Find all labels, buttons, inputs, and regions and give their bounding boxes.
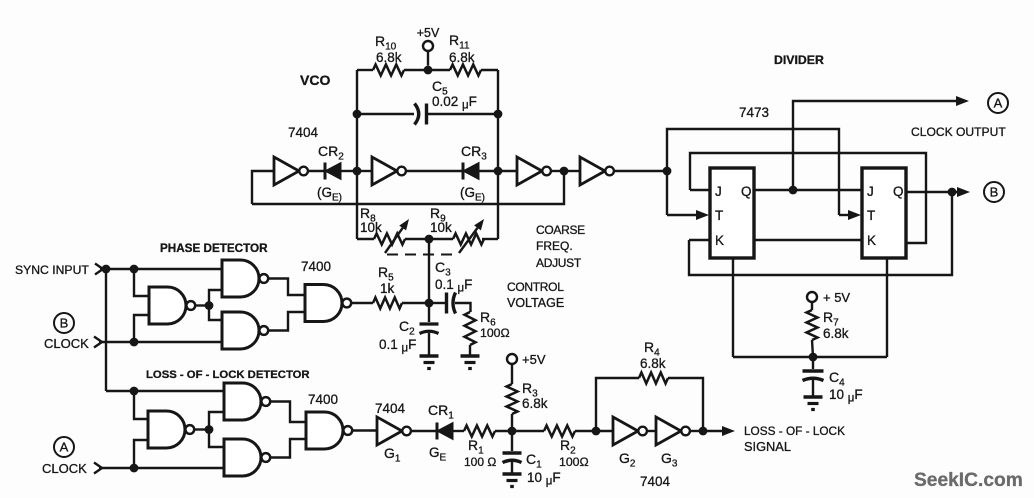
wire U1D output to divider [615,170,668,172]
label 7473 [739,105,769,120]
wire R3 to node [511,414,513,431]
svg-text:6.8k: 6.8k [823,326,849,341]
label COARSE FREQ. ADJUST [536,223,585,270]
resistor R4 6.8k [639,339,668,384]
wire CR3 to node [479,170,498,172]
inverter U1C (7404) [517,157,551,185]
wire wiper node to control node [428,239,430,303]
resistor R10 [373,33,404,76]
svg-text:7404: 7404 [288,125,319,140]
inverter U1B (7404) [372,157,406,185]
output B [984,182,1004,202]
wire C3 to R6 [455,303,471,312]
svg-text:7404: 7404 [375,401,406,416]
wire CR2 to node [341,170,357,172]
svg-text:100Ω: 100Ω [480,326,510,340]
node U3C output [205,425,214,434]
node R1/R3/C1/R2 [508,427,517,436]
wire R2 to node [575,430,596,432]
svg-text:7473: 7473 [739,105,769,120]
svg-text:100 Ω: 100 Ω [464,455,496,469]
svg-text:10k: 10k [430,220,452,235]
resistor R1 100ohm [464,426,496,470]
svg-text:VCO: VCO [300,72,330,88]
label 7400 (loss-of-lock) [308,392,338,407]
ground (C4) [804,397,823,410]
node Q1 branch [789,186,798,195]
svg-text:10 μF: 10 μF [829,387,863,405]
svg-text:LOSS - OF - LOCK DETECTOR: LOSS - OF - LOCK DETECTOR [146,369,310,381]
node SYNC branch [102,265,111,274]
svg-text:A: A [60,440,69,455]
wire node to U1C [498,170,517,172]
wire C4 to ground [812,380,814,396]
ground (C1) [503,474,522,487]
wire node to G2 [596,430,613,432]
ground (R6) [461,356,480,369]
node VCO right rail / inverter row [494,167,503,176]
svg-text:+ 5V: + 5V [823,290,850,305]
wire node to U2C bottom input [134,315,149,342]
input B CLOCK [44,313,102,351]
wire node to R2 [512,430,544,432]
svg-text:10k: 10k [360,220,382,235]
resistor R3 6.8k [507,380,548,414]
wire U1C output to feedback node [552,170,565,172]
svg-text:B: B [60,316,69,331]
wire R8 to wiper node [405,238,453,240]
nand U3A (7400) [224,383,270,420]
wire U1A output to CR2 [309,170,326,172]
potentiometer R8 10k [360,205,409,253]
svg-text:DIVIDER: DIVIDER [774,53,824,67]
wire R10 to +5V node [404,69,450,71]
power +5V supply (VCO) [417,26,440,66]
wire FF2 bottom to R7 rail [886,258,888,357]
wire J1 input [690,189,710,191]
node U2C output [205,301,214,310]
resistor R11 [449,32,481,76]
svg-text:1k: 1k [380,281,395,296]
capacitor C3 [429,259,472,314]
wire VCO top rail left [357,69,373,71]
capacitor C4 [803,357,863,405]
wire Qbar1 to K2 [754,239,862,241]
node Q2 branch [948,188,957,197]
node R8/R9 wiper [425,235,434,244]
diode CR1 [428,402,454,464]
svg-text:100Ω: 100Ω [559,455,589,469]
wire G2 to G3 [648,430,657,432]
node C5 left [353,110,362,119]
svg-text:0.1 μF: 0.1 μF [435,277,472,295]
wire A clock to gate U3B [99,467,224,469]
wire left rail to R8 [357,238,374,240]
wire Q1 to clock output A [793,96,969,190]
wire U2B output to U2D [268,312,305,331]
ground (C2) [420,356,439,369]
wire U1B output to CR3 [407,170,464,172]
wire CR1 to R1 [453,430,464,432]
svg-text:6.8k: 6.8k [522,396,548,411]
svg-text:COARSE: COARSE [536,223,585,237]
wire U2C output to node [195,304,209,306]
wire VCO left rail [356,70,358,239]
wire J1 feedback from Qbar2 [690,153,926,243]
svg-text:FREQ.: FREQ. [536,239,573,253]
svg-text:7404: 7404 [640,474,671,489]
svg-text:CONTROL: CONTROL [507,280,564,294]
nand U2B (7400) [222,312,268,349]
wire G3 to node [691,430,704,432]
svg-text:J: J [867,184,874,199]
wire R4 left leg [596,378,639,431]
node G2 input / R4 [592,427,601,436]
wire Q2 to output B [906,187,970,197]
label CLOCK OUTPUT [911,125,1006,139]
svg-text:K: K [867,233,876,248]
wire node to U3A bottom input [209,412,224,430]
nand U2A (7400) [222,260,268,297]
svg-text:SIGNAL: SIGNAL [744,439,791,454]
label DIVIDER [774,53,824,67]
output A [988,93,1008,113]
inverter G3 (7404) [656,417,690,470]
wire T input FF1 [667,210,709,220]
svg-text:J: J [715,184,722,199]
svg-text:A: A [994,96,1003,111]
input A CLOCK [42,437,102,476]
inverter G2 (7404) [613,417,647,470]
wire U2D output to R5 [351,302,373,304]
diode CR3 [460,143,487,204]
svg-text:CLOCK: CLOCK [44,336,89,351]
wire node to U3C bottom input [134,440,148,468]
output LOSS-OF-LOCK SIGNAL arrow [703,426,735,436]
svg-text:+5V: +5V [522,352,546,367]
svg-text:10 μF: 10 μF [527,470,561,488]
power +5V supply (R3) [507,352,546,384]
wire U3A output to U3D [270,402,306,423]
wire U3D output to G1 [352,429,377,431]
wire R4 right leg [668,378,703,431]
svg-text:VOLTAGE: VOLTAGE [507,296,564,310]
node A clock branch [130,464,139,473]
node VCO output to divider [663,167,672,176]
power +5V supply (R7) [807,290,850,310]
wire C5 right [427,113,499,115]
label PHASE DETECTOR [160,242,268,255]
wire node to U2A bottom input [209,290,222,306]
svg-text:6.8k: 6.8k [449,50,475,65]
wire B clock to gate U2B [99,341,222,343]
wire T input FF2 [839,210,861,220]
inverter U1A (7404) [274,157,308,185]
wire dashed gang line [387,254,458,256]
wire SYNC input to gate U2A [100,268,222,270]
wire R7 rail [733,356,887,358]
wire U3B output to U3D [270,439,306,458]
svg-text:ADJUST: ADJUST [536,256,582,270]
svg-text:7400: 7400 [301,259,331,274]
wire C5 left [357,113,414,115]
inverter U1D (7404) [580,157,614,185]
wire U3C output to node [194,428,209,430]
wire node to U2C top input [134,269,149,296]
label 7404 (G2 G3) [640,474,671,489]
inverter G1 (7404) [375,401,411,465]
wire Q1 to J2 [754,189,862,191]
resistor R7 6.8k [807,309,849,341]
wire SYNC down to loss-of-lock [105,269,107,391]
wire VCO right rail [497,70,499,239]
wire R9 to right rail [482,238,498,240]
svg-text:SeekIC.com: SeekIC.com [914,470,1023,491]
wire C2 to ground [428,333,430,355]
resistor R2 100ohm [544,426,589,470]
svg-text:T: T [867,208,875,223]
resistor R5 1k [373,264,402,309]
capacitor C5 [415,78,477,125]
node G3 output / R4 [699,427,708,436]
nand U3C (7400) [148,411,194,448]
wire VCO top rail right [481,69,498,71]
nand U2D (7400) [305,285,351,322]
wire feedback loop bottom [252,171,564,204]
svg-text:6.8k: 6.8k [640,356,666,371]
svg-text:Q: Q [893,184,904,199]
wire K1 feedback from Q2 [689,192,952,275]
svg-text:T: T [715,208,723,223]
capacitor C2 [379,303,439,355]
label LOSS-OF-LOCK DETECTOR [146,369,310,381]
wire feedback to inverter U1A input [252,171,274,204]
node control voltage [425,299,434,308]
node C5 right [494,110,503,119]
wire node to U3C top input [134,391,148,419]
wire G1 output to CR1 [412,430,438,432]
node LOL top branch [130,387,139,396]
svg-text:K: K [715,233,724,248]
wire U2A output to U2D [268,279,305,296]
svg-text:CLOCK OUTPUT: CLOCK OUTPUT [911,125,1006,139]
label 7404 (VCO inverters) [288,125,319,140]
wire R7 to node [812,340,813,357]
input SYNC INPUT [15,263,103,277]
nand U3B (7400) [224,439,270,476]
svg-text:7400: 7400 [308,392,338,407]
wire FF1 bottom to R7 rail [732,258,734,357]
node R7/C4 [809,353,818,362]
watermark SeekIC.com [914,470,1023,491]
svg-text:0.1 μF: 0.1 μF [379,337,416,355]
svg-text:+5V: +5V [417,26,440,40]
capacitor C1 [503,431,561,488]
label 7400 (phase detector) [301,259,331,274]
wire K1 input [689,239,710,241]
wire node to U3B top input [209,430,224,448]
node VCO left rail / inverter row [353,167,362,176]
svg-text:Q: Q [741,184,752,199]
potentiometer R9 10k [430,205,484,253]
svg-text:CLOCK: CLOCK [42,461,87,476]
wire R5 to control node [402,302,429,304]
flip-flop FF2 (7473) [862,168,906,258]
node B clock branch [130,338,139,347]
wire R6 to ground [469,345,471,355]
svg-text:SYNC INPUT: SYNC INPUT [15,263,89,277]
wire sync branch to gate U3A [106,390,224,392]
label LOSS-OF-LOCK SIGNAL [744,424,845,454]
wire feedback node to U1D [564,170,580,172]
flip-flop FF1 (7473) [710,168,754,258]
svg-text:PHASE DETECTOR: PHASE DETECTOR [160,242,268,255]
wire node to U2B top input [209,306,222,321]
svg-text:LOSS - OF - LOCK: LOSS - OF - LOCK [744,424,845,438]
node VCO top rail junction [424,66,433,75]
node feedback takeoff [560,167,569,176]
label VCO [300,72,330,88]
svg-text:0.02 μF: 0.02 μF [432,94,477,112]
node SYNC to U2C [130,265,139,274]
svg-text:6.8k: 6.8k [376,50,402,65]
wire node to U1B [357,170,372,172]
resistor R6 100ohm [465,309,510,345]
diode CR2 [317,143,344,204]
label CONTROL VOLTAGE [507,280,564,310]
wire C1 to ground [511,462,513,473]
svg-text:B: B [990,185,999,200]
wire R1 to node [495,430,512,432]
wire divider outer loop top [667,129,839,215]
nand U2C (7400) [149,287,195,324]
nand U3D (7400) [306,412,352,449]
